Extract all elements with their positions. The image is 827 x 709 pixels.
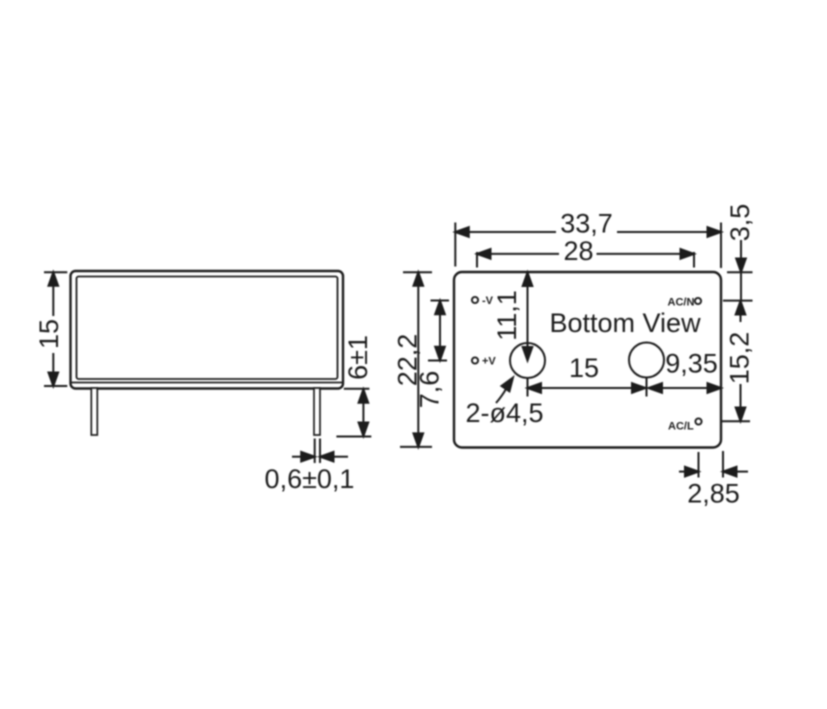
dimension 33,7 (module width)	[455, 209, 721, 269]
side view case outer outline	[71, 271, 344, 389]
dimension 3,5 (AC/N from top edge)	[723, 204, 755, 301]
svg-text:+V: +V	[482, 355, 496, 367]
dimension 2,85 (AC pad to right edge)	[679, 451, 748, 509]
svg-text:0,6±0,1: 0,6±0,1	[265, 464, 355, 494]
svg-text:28: 28	[563, 236, 593, 266]
svg-text:15: 15	[34, 319, 64, 349]
svg-text:AC/L: AC/L	[668, 421, 694, 433]
dimension 11,1 (hole from top edge)	[492, 273, 532, 361]
svg-text:3,5: 3,5	[725, 204, 755, 242]
svg-text:33,7: 33,7	[560, 209, 613, 239]
dimension 7,6 (pad row spacing)	[415, 301, 450, 409]
svg-text:11,1: 11,1	[492, 290, 522, 341]
mounting hole right 4,5	[629, 343, 664, 378]
label 2-ø4,5 with leader arrow	[466, 375, 544, 428]
svg-text:AC/N: AC/N	[668, 297, 695, 309]
svg-text:6±1: 6±1	[343, 335, 373, 380]
svg-text:Bottom View: Bottom View	[550, 308, 702, 338]
dimension 22,2 (module height)	[393, 272, 433, 447]
pad AC/N	[695, 298, 701, 304]
svg-text:15: 15	[569, 353, 599, 383]
svg-text:7,6: 7,6	[415, 371, 445, 409]
dimension 15 (case height)	[34, 272, 67, 386]
dimension 28 (pad column spacing)	[477, 236, 694, 268]
side view base flange line	[71, 382, 343, 384]
bottom view module outline	[454, 272, 721, 448]
dimension 15,2 (AC/N to AC/L spacing)	[722, 301, 755, 421]
svg-text:2,85: 2,85	[687, 479, 740, 509]
dimension 6±1 (pin length)	[336, 335, 373, 436]
pad +V	[472, 357, 478, 363]
side view case inner line	[77, 277, 338, 380]
pin right (side view)	[314, 388, 320, 435]
pad AC/L	[695, 418, 701, 424]
svg-text:15,2: 15,2	[725, 332, 755, 385]
mounting hole left 4,5	[510, 343, 545, 378]
svg-text:2-ø4,5: 2-ø4,5	[466, 398, 544, 428]
dimension 0,6±0,1 (pin width)	[265, 439, 355, 495]
svg-text:9,35: 9,35	[665, 349, 718, 379]
dimension 9,35 (hole to right edge)	[649, 349, 722, 393]
dimension 15 (hole spacing)	[528, 353, 647, 397]
pin left (side view)	[91, 388, 97, 435]
pad -V	[472, 297, 478, 303]
